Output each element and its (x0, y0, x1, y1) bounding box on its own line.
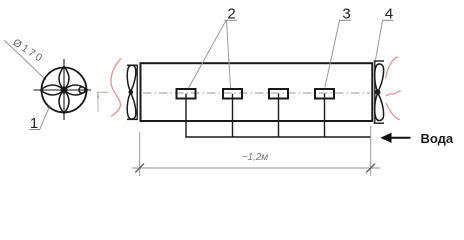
leader line for Ø170 (4, 40, 46, 80)
small grey arrowhead on corner mark (97, 93, 99, 98)
underline of label 4 (382, 19, 393, 21)
heating element E3 (269, 89, 288, 99)
red airflow curve right bottom (386, 103, 400, 120)
water arrow head (380, 133, 391, 143)
heating element E1 (177, 89, 196, 99)
left fan bottom blade (127, 93, 136, 119)
left fan top cap (127, 64, 138, 66)
right fan hub dot (375, 90, 380, 95)
dash-dot centerline of duct (143, 92, 370, 94)
underline of label 1 (30, 129, 41, 131)
wire from E3 (278, 94, 280, 137)
left fan top blade (127, 65, 136, 91)
right extension line (370, 126, 372, 176)
left fan frame line (136, 65, 138, 120)
duct body rectangle (141, 63, 373, 121)
water arrow line (391, 137, 411, 139)
right fan top blade (375, 64, 384, 92)
centerline through fan circle (horizontal) (34, 89, 92, 91)
left extension line (139, 132, 141, 176)
right fan bottom blade (375, 93, 384, 121)
right fan frame line (374, 61, 376, 123)
wire from E1 (185, 94, 187, 137)
leader from 3 to E4 (325, 21, 340, 88)
left fan hub dot (129, 90, 134, 95)
leader from 2 to E2 (227, 21, 231, 89)
right fan top cap (374, 60, 384, 62)
fan front view outer circle (pos.1) (42, 68, 87, 113)
centerline through fan circle (vertical) (63, 59, 65, 120)
wire from E2 (232, 94, 234, 137)
underline of label 2 (225, 19, 238, 21)
fan blade petal up (59, 67, 69, 91)
fan hub center dot (60, 86, 67, 93)
fan blade petal right (64, 85, 88, 95)
wire from E4 (324, 94, 326, 137)
fan blade petal down (59, 90, 69, 114)
red airflow curve right top (386, 57, 399, 78)
right dimension tick (366, 164, 375, 173)
right fan bottom cap (374, 122, 384, 124)
leader from 2 to E1 (189, 21, 227, 89)
left dimension tick (135, 164, 144, 173)
dimension line (132, 167, 380, 169)
heating element E2 (223, 89, 242, 99)
small circle at right petal tip (79, 87, 85, 93)
small grey corner mark right of circle (97, 92, 109, 112)
svg-text:~1,2м: ~1,2м (242, 152, 269, 163)
left fan bottom cap (127, 118, 138, 120)
fan blade petal left (41, 85, 65, 95)
heating element E4 (315, 89, 334, 99)
leader from 4 to right fan (376, 21, 383, 61)
red airflow curve left (111, 59, 121, 117)
svg-text:Вода: Вода (421, 131, 454, 146)
leader dot for label 1 (48, 106, 51, 109)
underline of label 3 (339, 19, 351, 21)
bus wire under duct (185, 136, 371, 138)
leader line for label 1 (40, 108, 49, 130)
red airflow curve right middle (386, 91, 401, 96)
